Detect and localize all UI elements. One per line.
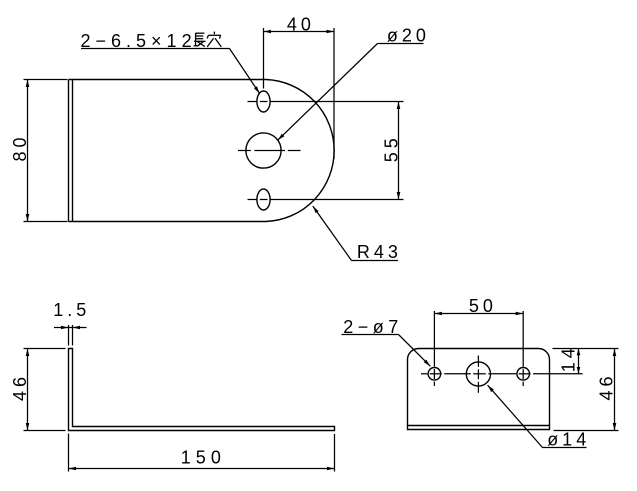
view3 flange outline (rounded top corners) (408, 349, 550, 430)
view1 centerline bottom slot / extension to dim 55 (248, 199, 257, 201)
view2 angle outline (L-shape side view) (69, 349, 335, 431)
view3 hole Φ7 right (517, 368, 530, 381)
dimension 40 arrows (264, 30, 272, 34)
dimension 150 line (69, 468, 335, 470)
view3 vertical centerline left hole / extension to dim 50 (433, 311, 435, 367)
svg-text:150: 150 (181, 448, 226, 468)
kanji "naga" (long) of slot label (195, 33, 197, 46)
dimension 46 right line (614, 349, 616, 431)
leader line slot label (81, 48, 230, 50)
dimension 14 top extension line (shared with dim 46) (553, 348, 619, 350)
view1 slot hole bottom (6.5x12 oblong) (257, 189, 270, 210)
leader arrow Φ14 (488, 385, 494, 392)
dimension 40 extension lines (263, 28, 265, 89)
svg-text:ø20: ø20 (387, 25, 430, 45)
svg-text:80: 80 (10, 133, 30, 161)
view3 vertical centerline center hole (477, 356, 479, 367)
dimension 150 arrows (69, 467, 77, 471)
svg-text:2−ø7: 2−ø7 (343, 317, 403, 337)
view1 hole Φ20 (246, 133, 281, 168)
svg-text:50: 50 (469, 296, 497, 316)
dimension 46 right bottom extension line (554, 430, 619, 432)
dimension 50 arrows (434, 312, 442, 316)
dimension 80 arrows (26, 80, 30, 88)
leader arrow Φ20 (278, 134, 285, 141)
leader arrow 2-Φ7 (424, 360, 431, 367)
svg-text:2−6.5×12: 2−6.5×12 (81, 31, 197, 51)
view3 horizontal centerline through holes / extension to dim 14 (421, 373, 427, 375)
leader line Φ14 (543, 447, 587, 449)
dimension 50 line (434, 313, 523, 315)
view1 plate bend line (inner left edge) (72, 80, 74, 221)
dimension 150 extension lines (68, 434, 70, 472)
view1 centerline top slot / extension to dim 55 (248, 101, 257, 103)
svg-text:R43: R43 (357, 242, 402, 262)
svg-text:ø14: ø14 (547, 429, 590, 449)
dimension 14 arrows (577, 349, 581, 356)
dimension 80 extension lines (24, 79, 68, 81)
dimension 46 left line (27, 349, 29, 431)
svg-text:14: 14 (558, 344, 578, 372)
view3 hole Φ14 center (466, 362, 490, 386)
dimension 55 line (398, 102, 400, 200)
view1 plate outline (top view, rounded right end R43) (69, 80, 335, 222)
leader line 2-Φ7 (342, 334, 399, 336)
svg-text:46: 46 (10, 373, 30, 401)
svg-text:40: 40 (287, 14, 315, 34)
view1 centerline hole Φ20 (238, 150, 251, 152)
view3 bend line (horizontal leg top edge) (408, 425, 550, 427)
kanji "ana" (hole) of slot label (213, 32, 215, 35)
leader arrow slot label (254, 86, 260, 93)
view3 hole Φ7 left (428, 368, 441, 381)
dimension 14 line (578, 349, 580, 374)
dimension 40 line (264, 31, 335, 33)
dimension 1.5 line (54, 327, 87, 329)
leader line Φ20 (378, 43, 424, 45)
dimension 80 line (27, 80, 29, 222)
dimension 1.5 arrows (61, 326, 69, 330)
dimension 55 arrows (397, 102, 401, 110)
svg-text:55: 55 (382, 134, 402, 162)
dimension 1.5 extension lines (68, 325, 70, 346)
leader line R43 (352, 260, 399, 262)
svg-text:1.5: 1.5 (53, 300, 90, 320)
dimension 46 left extension lines (24, 348, 66, 350)
view1 slot hole top (6.5x12 oblong) (257, 91, 270, 112)
leader arrow R43 (313, 206, 319, 213)
svg-text:46: 46 (596, 372, 616, 400)
view3 vertical centerline right hole / extension to dim 50 (522, 311, 524, 367)
dimension 46 right arrows (613, 349, 617, 357)
dimension 46 left arrows (26, 349, 30, 357)
